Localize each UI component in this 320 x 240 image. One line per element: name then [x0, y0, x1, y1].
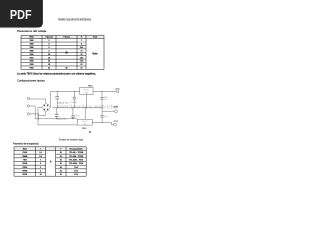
svg-text:8: 8 [49, 47, 50, 49]
svg-text:11: 11 [81, 50, 83, 52]
svg-text:PDF: PDF [10, 7, 32, 22]
svg-text:1000uF 25v: 1000uF 25v [57, 118, 68, 120]
svg-text:TO-220 - TO3: TO-220 - TO3 [69, 163, 83, 165]
svg-text:Volts: Volts [92, 52, 98, 55]
svg-text:A: A [50, 160, 52, 163]
svg-text:1000uF 25v: 1000uF 25v [57, 102, 70, 104]
svg-text:GND: GND [83, 123, 86, 125]
svg-text:0.5: 0.5 [39, 156, 41, 158]
svg-text:78H05: 78H05 [22, 171, 27, 173]
svg-text:8: 8 [81, 44, 82, 46]
svg-text:7809: 7809 [30, 50, 34, 52]
svg-text:24: 24 [48, 67, 50, 70]
svg-text:21: 21 [81, 64, 83, 66]
svg-text:10: 10 [48, 54, 50, 56]
svg-text:7812: 7812 [88, 86, 94, 88]
svg-text:14.5: 14.5 [80, 56, 84, 59]
svg-text:5: 5 [49, 40, 50, 42]
svg-text:+: + [54, 113, 55, 115]
svg-text:7812: 7812 [30, 57, 34, 59]
svg-text:7824: 7824 [30, 67, 34, 70]
svg-text:Configuraciones tipicas.: Configuraciones tipicas. [17, 79, 46, 83]
svg-text:27: 27 [81, 68, 83, 70]
svg-text:V (prom): V (prom) [45, 37, 53, 39]
svg-text:TO-92 - TO39: TO-92 - TO39 [69, 152, 83, 154]
svg-text:FUENTES CON CIRCUITOS INTEGRAD: FUENTES CON CIRCUITOS INTEGRADOS [58, 17, 91, 21]
svg-text:17.5: 17.5 [80, 61, 84, 63]
svg-text:7810: 7810 [30, 54, 34, 56]
svg-text:7808: 7808 [30, 47, 34, 49]
svg-text:30: 30 [60, 152, 62, 154]
svg-text:Parametros del encapsulado.: Parametros del encapsulado. [13, 141, 39, 145]
svg-text:TO-3: TO-3 [74, 171, 78, 173]
svg-text:7806: 7806 [30, 44, 34, 46]
svg-text:TO-220 - TO39: TO-220 - TO39 [69, 156, 83, 158]
svg-text:15: 15 [48, 61, 50, 63]
svg-text:0.1: 0.1 [39, 152, 41, 154]
svg-text:+VCC: +VCC [115, 88, 121, 90]
svg-text:TO-3: TO-3 [74, 174, 78, 176]
svg-text:40: 40 [60, 166, 62, 169]
svg-text:25: 25 [60, 171, 62, 173]
svg-text:10.5: 10.5 [80, 47, 84, 49]
svg-text:+: + [55, 95, 56, 97]
svg-text:78T05: 78T05 [22, 167, 27, 169]
svg-text:35: 35 [60, 156, 62, 158]
svg-text:GND: GND [113, 107, 118, 109]
svg-text:78P05: 78P05 [22, 174, 27, 176]
svg-text:3: 3 [40, 167, 41, 169]
svg-text:100nF: 100nF [70, 102, 78, 104]
svg-text:7912: 7912 [82, 128, 88, 130]
svg-text:7: 7 [81, 40, 82, 42]
svg-text:-VCC: -VCC [113, 121, 118, 123]
svg-text:GND: GND [85, 92, 88, 94]
svg-text:78M05: 78M05 [22, 156, 27, 158]
svg-text:TO-3: TO-3 [74, 167, 78, 169]
svg-text:7805: 7805 [23, 160, 27, 162]
svg-text:La serie 79XX tiene los mismos: La serie 79XX tiene los mismos parametro… [17, 72, 96, 75]
svg-text:1: 1 [40, 160, 41, 162]
svg-text:6: 6 [49, 44, 50, 46]
svg-text:10uF: 10uF [104, 116, 108, 118]
svg-text:9: 9 [49, 50, 50, 52]
svg-text:5: 5 [40, 171, 41, 173]
svg-text:18: 18 [48, 64, 50, 66]
svg-text:IN OUT: IN OUT [82, 121, 87, 123]
svg-text:TO-220 - TO3: TO-220 - TO3 [69, 160, 83, 162]
svg-text:10: 10 [40, 174, 42, 176]
svg-text:Fuente de tension dual: Fuente de tension dual [59, 137, 83, 141]
svg-text:Total: Total [93, 36, 98, 39]
svg-text:7818: 7818 [30, 64, 34, 66]
svg-text:V (max): V (max) [63, 37, 70, 39]
svg-text:7815: 7815 [30, 61, 34, 63]
svg-text:78L05: 78L05 [22, 152, 27, 154]
svg-text:100nF: 100nF [74, 115, 79, 117]
svg-text:12: 12 [48, 57, 50, 59]
svg-text:Encapsulado: Encapsulado [70, 148, 83, 150]
svg-text:78S05: 78S05 [22, 163, 27, 165]
svg-text:35: 35 [60, 163, 62, 165]
svg-text:40: 40 [66, 67, 68, 70]
svg-text:Parametros del voltaje.: Parametros del voltaje. [17, 29, 47, 33]
svg-text:20: 20 [60, 174, 62, 176]
svg-text:35: 35 [60, 160, 62, 162]
svg-text:IN OUT: IN OUT [84, 90, 89, 92]
svg-text:7805: 7805 [30, 40, 34, 42]
svg-text:MCA: MCA [29, 36, 34, 39]
svg-text:2: 2 [40, 163, 41, 165]
svg-text:12: 12 [81, 54, 83, 56]
svg-text:16v: 16v [104, 99, 107, 101]
